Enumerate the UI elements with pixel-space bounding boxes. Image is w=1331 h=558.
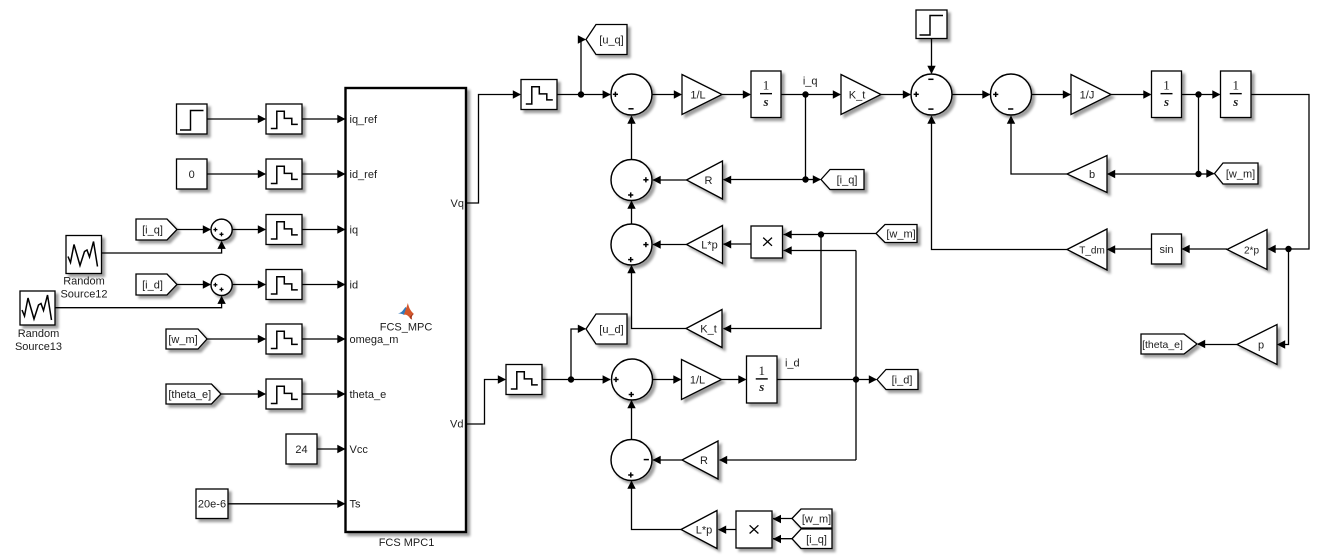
svg-text:[i_d]: [i_d] [142, 280, 163, 292]
svg-text:[i_q]: [i_q] [837, 175, 858, 187]
svg-text:1/J: 1/J [1080, 90, 1095, 102]
rate transition Rate Transition4 (omega_m) [266, 324, 302, 354]
sum (cross coupling d) L*p [681, 511, 717, 549]
wire [719, 456, 856, 464]
wire [653, 240, 687, 248]
wire [781, 90, 841, 98]
wire [1277, 249, 1289, 349]
svg-text:[i_d]: [i_d] [892, 375, 913, 387]
wire [578, 35, 586, 94]
from tag [i_d] [136, 274, 177, 295]
svg-text:Vcc: Vcc [350, 444, 369, 456]
wire [722, 90, 751, 98]
rate transition Rate Transition7 (Vd) [506, 365, 542, 395]
svg-text:FCS_MPC: FCS_MPC [380, 322, 433, 334]
wire [302, 280, 346, 288]
svg-text:L*p: L*p [696, 525, 713, 537]
goto tag [u_d] [586, 314, 627, 344]
svg-text:T_dm: T_dm [1079, 246, 1105, 257]
svg-text:iq_ref: iq_ref [350, 114, 378, 126]
from tag [w_m] (left) [166, 329, 207, 349]
wire [805, 95, 807, 180]
svg-text:20e-6: 20e-6 [198, 499, 226, 511]
wire [466, 375, 506, 424]
sum Sum (d current) [612, 359, 653, 400]
svg-text:Random: Random [18, 328, 60, 340]
wire [302, 390, 346, 398]
wire [1198, 95, 1200, 175]
svg-text:Source12: Source12 [60, 289, 107, 301]
wire [718, 526, 736, 534]
svg-text:[i_q]: [i_q] [806, 534, 827, 546]
wire [302, 170, 346, 178]
wire [302, 335, 346, 343]
sum Sum (damping) [991, 74, 1032, 115]
svg-text:R: R [705, 175, 713, 187]
svg-text:K_t: K_t [700, 324, 717, 336]
svg-text:1/L: 1/L [690, 375, 705, 387]
svg-text:K_t: K_t [849, 90, 866, 102]
wire [542, 375, 611, 383]
svg-text:id: id [350, 279, 359, 291]
svg-text:[w_m]: [w_m] [802, 514, 831, 526]
wire [722, 375, 747, 383]
svg-text:2*p: 2*p [1244, 246, 1259, 257]
svg-text:FCS MPC1: FCS MPC1 [379, 537, 435, 549]
goto tag [u_q] [586, 25, 627, 55]
wire [723, 235, 821, 333]
svg-text:[theta_e]: [theta_e] [1142, 339, 1183, 351]
constant block 0 (id_ref) [177, 159, 208, 189]
gain T_dm [1067, 229, 1107, 270]
svg-text:[w_m]: [w_m] [1226, 169, 1255, 181]
wire [302, 225, 346, 233]
product block (w_m x i_d) [751, 226, 783, 258]
subsystem FCS_MPC (FCS MPC1) [346, 88, 467, 549]
wire [627, 201, 635, 225]
wire [55, 296, 226, 308]
svg-text:i_q: i_q [803, 76, 818, 88]
gain K_t (q) [841, 75, 881, 115]
constant block 24 (Vcc) [286, 434, 317, 464]
wire [232, 225, 266, 233]
svg-text:L*p: L*p [701, 240, 718, 252]
goto tag [theta_e] [1141, 334, 1197, 354]
svg-text:[u_q]: [u_q] [599, 35, 623, 47]
wire [806, 175, 822, 183]
wire [557, 90, 611, 98]
node i_d [785, 358, 800, 370]
sum junction (id noise adder) [211, 274, 232, 295]
wire [723, 240, 751, 248]
sum Sum (R feedback d) [611, 440, 652, 481]
wire [207, 335, 266, 343]
wire [627, 481, 681, 530]
wire [952, 90, 991, 98]
from tag [w_m] (q cross) [876, 225, 917, 243]
svg-text:s: s [1232, 94, 1238, 109]
from tag [theta_e] (left) [166, 384, 221, 404]
svg-text:1: 1 [1233, 78, 1240, 93]
sum Sum (q current) [611, 74, 652, 115]
wire [773, 535, 792, 543]
svg-text:1: 1 [763, 78, 770, 93]
sum Sum (cross coupling q) [611, 224, 652, 265]
svg-text:iq: iq [350, 224, 359, 236]
wire [1182, 245, 1228, 253]
gain R (q) [687, 161, 723, 199]
svg-text:b: b [1089, 169, 1095, 181]
rate transition Rate Transition (iq_ref) [266, 104, 302, 134]
svg-text:1: 1 [1163, 78, 1170, 93]
svg-text:s: s [758, 379, 764, 394]
wire [653, 176, 687, 184]
wire [571, 325, 586, 380]
wire [777, 375, 877, 383]
rate transition Rate Transition6 (Vq) [521, 80, 557, 110]
wire [881, 90, 911, 98]
svg-text:0: 0 [189, 169, 195, 181]
svg-text:sin: sin [1159, 244, 1173, 256]
wire [821, 234, 876, 235]
svg-text:R: R [700, 455, 708, 467]
wire [627, 265, 686, 329]
rate transition Rate Transition1 (id_ref) [266, 159, 302, 189]
wire [207, 115, 266, 123]
wire [784, 230, 825, 238]
svg-text:Vq: Vq [451, 198, 464, 210]
wire [1197, 340, 1237, 348]
rate transition Rate Transition3 (id) [266, 270, 302, 300]
integrator 1/s (i_d) [747, 356, 778, 403]
wire [653, 375, 682, 383]
wire [228, 500, 346, 508]
gain 1/L (q) [682, 75, 722, 115]
integrator 1/s (w_m) [1152, 71, 1182, 118]
wire [653, 456, 683, 464]
wire [1111, 90, 1152, 98]
svg-text:1: 1 [759, 363, 766, 378]
svg-text:1/L: 1/L [690, 90, 705, 102]
goto tag [w_m] [1215, 163, 1259, 184]
wire [177, 280, 211, 288]
svg-text:p: p [1258, 340, 1264, 352]
svg-text:[w_m]: [w_m] [886, 229, 915, 241]
from tag [i_q] [136, 219, 177, 240]
gain p [1237, 325, 1277, 365]
constant block 20e-6 (Ts) [196, 489, 228, 519]
svg-text:[w_m]: [w_m] [168, 334, 197, 346]
gain L*p (q) [687, 226, 723, 264]
wire [1251, 95, 1309, 254]
wire [1199, 169, 1215, 177]
wire [232, 280, 266, 288]
integrator 1/s (i_q) [751, 71, 781, 118]
wire [302, 115, 346, 123]
node i_q [803, 76, 818, 88]
wire [1107, 170, 1202, 178]
svg-text:theta_e: theta_e [350, 389, 387, 401]
wire [1107, 245, 1152, 253]
svg-text:[theta_e]: [theta_e] [168, 389, 211, 401]
wire [784, 246, 857, 254]
svg-text:Vd: Vd [450, 419, 463, 431]
wire [317, 445, 346, 453]
svg-text:Source13: Source13 [15, 341, 62, 353]
random source Random Source13 [15, 291, 62, 353]
wire [102, 241, 226, 253]
svg-text:[i_q]: [i_q] [142, 225, 163, 237]
gain b [1067, 156, 1107, 193]
wire [177, 225, 211, 233]
wire [207, 170, 266, 178]
wire [221, 390, 266, 398]
svg-text:Random: Random [63, 276, 105, 288]
wire [1007, 116, 1067, 175]
gain 1/L (d) [682, 360, 722, 400]
wire [773, 515, 792, 523]
product block (w_m x i_q) [736, 511, 772, 548]
svg-text:s: s [1163, 94, 1169, 109]
svg-text:24: 24 [295, 444, 307, 456]
gain 2*p [1227, 230, 1267, 270]
step source Step (iq_ref) [177, 104, 208, 134]
from tag [i_q] (d cross) [792, 529, 832, 549]
integrator 1/s (theta) [1221, 71, 1252, 118]
gain R (d) [682, 441, 718, 479]
wire [627, 400, 635, 440]
wire [1182, 90, 1221, 98]
wire [723, 176, 809, 184]
wire [927, 39, 935, 75]
svg-text:[u_d]: [u_d] [599, 324, 623, 336]
random source Random Source12 [60, 236, 107, 301]
svg-text:id_ref: id_ref [350, 169, 378, 181]
goto tag [i_q] [821, 170, 864, 190]
svg-text:i_d: i_d [785, 358, 800, 370]
sum Sum (torque) [911, 74, 952, 115]
svg-text:omega_m: omega_m [350, 334, 399, 346]
sum junction (iq noise adder) [211, 219, 232, 240]
gain 1/J [1071, 75, 1111, 115]
svg-text:s: s [762, 94, 768, 109]
sum Sum (R feedback q) [611, 160, 652, 201]
wire [466, 90, 521, 203]
rate transition Rate Transition2 (iq) [266, 215, 302, 245]
wire [1032, 90, 1072, 98]
wire [652, 90, 682, 98]
wire [927, 116, 1067, 250]
from tag [w_m] (d cross) [792, 509, 832, 528]
gain K_t (backemf) [686, 310, 722, 348]
svg-text:Ts: Ts [350, 499, 362, 511]
step source Step (load torque) [916, 10, 947, 39]
wire [855, 251, 857, 461]
goto tag [i_d] [877, 370, 918, 390]
wire [627, 116, 635, 160]
trigonometry block sin [1152, 234, 1182, 264]
rate transition Rate Transition5 (theta_e) [266, 379, 302, 409]
